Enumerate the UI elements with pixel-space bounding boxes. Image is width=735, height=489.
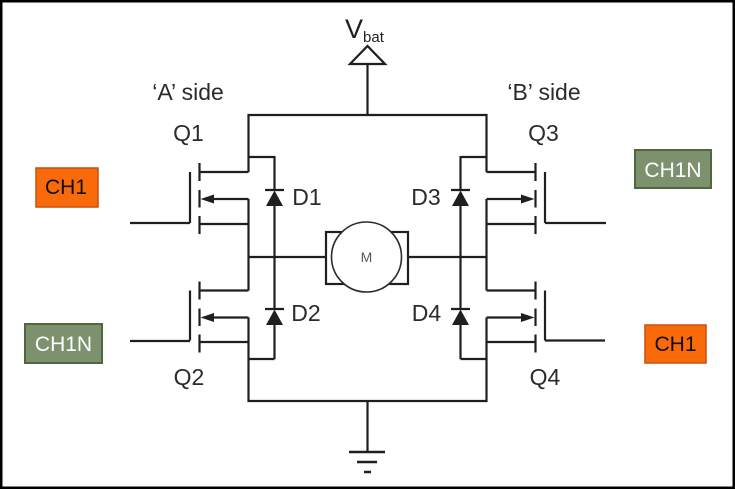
wire D2 anode to left rail bbox=[249, 358, 275, 360]
wire top bus bbox=[248, 114, 488, 116]
wire D3 cathode branch bbox=[461, 156, 487, 158]
label D1 bbox=[292, 184, 321, 210]
input box CH1 (right) bbox=[645, 325, 706, 363]
wire bottom bus bbox=[248, 400, 488, 402]
svg-text:Q4: Q4 bbox=[530, 364, 561, 390]
svg-text:Q1: Q1 bbox=[173, 120, 204, 146]
transistor Q3 bbox=[487, 163, 546, 234]
label D3 bbox=[411, 184, 440, 210]
label Q2 bbox=[174, 364, 205, 390]
wire D1 cathode branch bbox=[249, 156, 275, 158]
power symbol Vbat bbox=[350, 46, 385, 115]
label 'A' side bbox=[152, 79, 224, 105]
svg-text:‘A’ side: ‘A’ side bbox=[152, 79, 224, 105]
svg-text:CH1N: CH1N bbox=[35, 333, 92, 356]
label D4 bbox=[412, 300, 442, 326]
wire motor to node B bbox=[408, 256, 487, 258]
svg-text:Q2: Q2 bbox=[174, 364, 205, 390]
svg-text:D4: D4 bbox=[412, 300, 442, 326]
svg-text:CH1: CH1 bbox=[654, 333, 696, 356]
wire right rail bottom (Q4 source to ground bus) bbox=[485, 318, 487, 403]
wire Q2 gate input bbox=[130, 340, 190, 342]
transistor Q1 bbox=[190, 163, 249, 234]
label Q3 bbox=[528, 120, 559, 146]
svg-text:D3: D3 bbox=[411, 184, 440, 210]
svg-text:CH1N: CH1N bbox=[644, 159, 701, 182]
label D2 bbox=[291, 300, 320, 326]
wire right rail top (Vbat bus to Q3 drain) bbox=[485, 114, 487, 172]
wire left rail bottom (Q2 source to ground bus) bbox=[247, 318, 249, 403]
diode D1 bbox=[265, 156, 284, 257]
diode D2 bbox=[265, 257, 284, 359]
svg-text:D1: D1 bbox=[292, 184, 321, 210]
ground bbox=[349, 452, 385, 472]
input box CH1N (right) bbox=[635, 150, 711, 188]
wire Q3 gate input bbox=[545, 222, 606, 224]
input box CH1 (left) bbox=[36, 168, 98, 207]
label Vbat bbox=[345, 14, 385, 46]
motor M1 bbox=[326, 222, 408, 292]
wire node A rail (Q1 source to Q2 drain) bbox=[247, 199, 249, 291]
svg-text:M: M bbox=[361, 249, 373, 265]
label Q4 bbox=[530, 364, 561, 390]
diode D3 bbox=[451, 156, 470, 257]
wire node A to motor bbox=[249, 256, 327, 258]
wire D4 anode to right rail bbox=[461, 358, 487, 360]
wire Q4 gate input bbox=[545, 339, 605, 341]
svg-text:Q3: Q3 bbox=[528, 120, 559, 146]
svg-text:D2: D2 bbox=[291, 300, 320, 326]
wire ground tap bbox=[366, 401, 368, 452]
svg-text:‘B’ side: ‘B’ side bbox=[507, 79, 580, 105]
transistor Q2 bbox=[190, 282, 249, 353]
label Q1 bbox=[173, 120, 204, 146]
wire left rail top (Vbat bus to Q1 drain) bbox=[247, 114, 249, 172]
wire node B rail (Q3 source to Q4 drain) bbox=[485, 199, 487, 291]
transistor Q4 bbox=[487, 282, 546, 353]
diode D4 bbox=[451, 257, 470, 359]
label 'B' side bbox=[507, 79, 580, 105]
input box CH1N (left) bbox=[25, 324, 102, 363]
wire Q1 gate input bbox=[130, 222, 190, 224]
svg-text:CH1: CH1 bbox=[45, 176, 87, 199]
